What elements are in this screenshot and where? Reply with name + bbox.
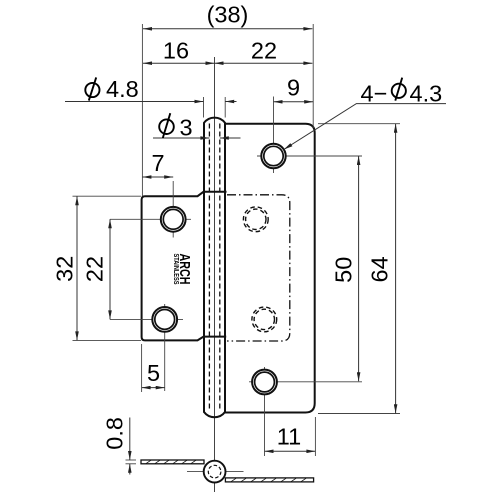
left leaf outline	[142, 192, 227, 341]
svg-text:22: 22	[251, 38, 277, 64]
dimension 16	[143, 62, 215, 64]
extension 5-dim left	[141, 344, 143, 392]
hole bottom-right	[252, 370, 277, 395]
hatch lower strip	[231, 478, 306, 481]
pin knuckle	[204, 118, 225, 418]
bottom view upper leaf strip	[141, 460, 204, 464]
svg-text:4.8: 4.8	[106, 76, 139, 102]
dimension phi4.8	[65, 101, 204, 103]
knuckle circle center line	[187, 471, 244, 473]
extension phi4.8 right	[224, 97, 226, 118]
label 4-phi4.3 with leader	[284, 104, 446, 150]
svg-text:4−: 4−	[361, 81, 388, 107]
hole crosshair top-right	[257, 155, 362, 157]
svg-text:50: 50	[331, 257, 357, 283]
dimension 22 left	[109, 219, 111, 319]
dimension 9	[274, 101, 314, 103]
center line (pin axis)	[214, 57, 216, 492]
svg-text:11: 11	[277, 424, 301, 450]
pin hidden hole lines	[208, 124, 210, 410]
dimension 7	[142, 176, 173, 178]
extension 32-dim bottom	[73, 339, 142, 341]
extension 64-dim bottom	[318, 413, 400, 415]
dimension 22 top	[215, 62, 313, 64]
extension 32-dim top	[73, 195, 142, 197]
svg-text:3: 3	[180, 115, 193, 141]
svg-text:22: 22	[82, 256, 108, 282]
dimension phi3	[153, 137, 209, 139]
dimension 11	[265, 450, 316, 452]
extension 11-dim right	[314, 417, 316, 456]
hidden hole upper (dashed)	[243, 207, 268, 232]
extension line left (x=142.4)	[141, 24, 143, 196]
svg-text:9: 9	[287, 75, 300, 101]
right leaf outline	[225, 124, 315, 413]
dimension 32	[76, 196, 78, 340]
svg-text:4.3: 4.3	[410, 81, 443, 107]
bottom view lower leaf strip	[225, 478, 313, 482]
svg-text:7: 7	[151, 150, 164, 176]
svg-text:32: 32	[51, 256, 77, 282]
extension 64-dim top	[318, 123, 400, 125]
hatch upper strip	[146, 460, 196, 463]
svg-text:5: 5	[147, 360, 160, 386]
extension line right (x=313.2)	[312, 24, 314, 128]
dimension 5	[142, 387, 165, 389]
knuckle circle (bottom view)	[204, 461, 226, 483]
hole top-left	[161, 207, 186, 232]
extension 0.8 surfaces	[126, 459, 137, 461]
pin hole (bottom view, dashed)	[208, 465, 221, 478]
svg-text:(38): (38)	[207, 2, 249, 28]
hole bottom-left	[152, 307, 177, 332]
phantom outline of folded leaf	[227, 195, 290, 341]
svg-text:STAINLESS: STAINLESS	[172, 254, 179, 285]
extension phi4.8 left	[203, 97, 205, 118]
hole top-right	[261, 144, 285, 168]
svg-text:0.8: 0.8	[102, 417, 128, 450]
hidden hole lower (dashed)	[252, 307, 277, 332]
hole crosshair bottom-right	[249, 381, 362, 383]
dimension 64	[395, 124, 397, 414]
svg-text:64: 64	[366, 256, 392, 282]
dimension 50	[358, 156, 360, 381]
svg-text:16: 16	[163, 38, 189, 64]
hole crosshair bottom-left	[110, 318, 183, 320]
dimension (38)	[143, 28, 312, 30]
hole crosshair top-left	[110, 218, 191, 220]
dimension 0.8	[129, 418, 131, 461]
